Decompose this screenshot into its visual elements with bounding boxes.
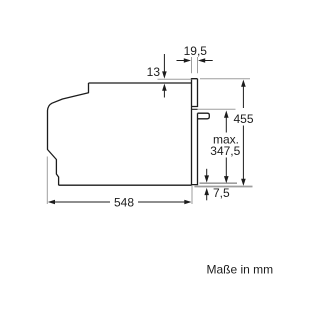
dim 19,5: extension lines [192,57,198,73]
dim 548: line right segment with right arrow [138,201,185,203]
dim 19,5: left arrow [177,60,186,62]
dim 548: right extension line [191,186,193,205]
oven body left profile [48,83,89,185]
oven body outline [89,82,192,84]
dim max 347,5: vertical line with arrows [225,117,227,177]
dim 13: up arrow [163,90,165,98]
svg-text:19,5: 19,5 [184,44,208,58]
svg-text:Maße in mm: Maße in mm [207,262,274,276]
door front panel [192,78,198,185]
niche bottom line upper (worktop) [200,182,238,184]
niche bottom line lower [194,186,252,188]
door handle [198,113,210,119]
oven body bottom edge [59,184,192,186]
dim 7,5: down arrow [206,169,208,176]
svg-text:13: 13 [147,65,161,79]
dim 455: top extension line [200,78,250,80]
svg-text:455: 455 [233,112,253,126]
svg-text:7,5: 7,5 [213,186,230,200]
dim 13: extension line (door top extended left) [158,78,192,80]
svg-text:347,5: 347,5 [210,144,240,158]
dim 548: line left segment with left arrow [54,201,110,203]
dim 548: left extension line [46,157,48,205]
dim 19,5: right arrow [204,60,213,62]
svg-text:548: 548 [114,195,134,209]
dim max 347,5: top extension line (door seam extended right) [198,108,236,110]
dim 455: vertical line with arrows [242,86,244,179]
dim 13: down arrow [163,54,165,72]
dim 7,5: up arrow [206,195,208,201]
door seam line (dark part) [192,108,198,110]
